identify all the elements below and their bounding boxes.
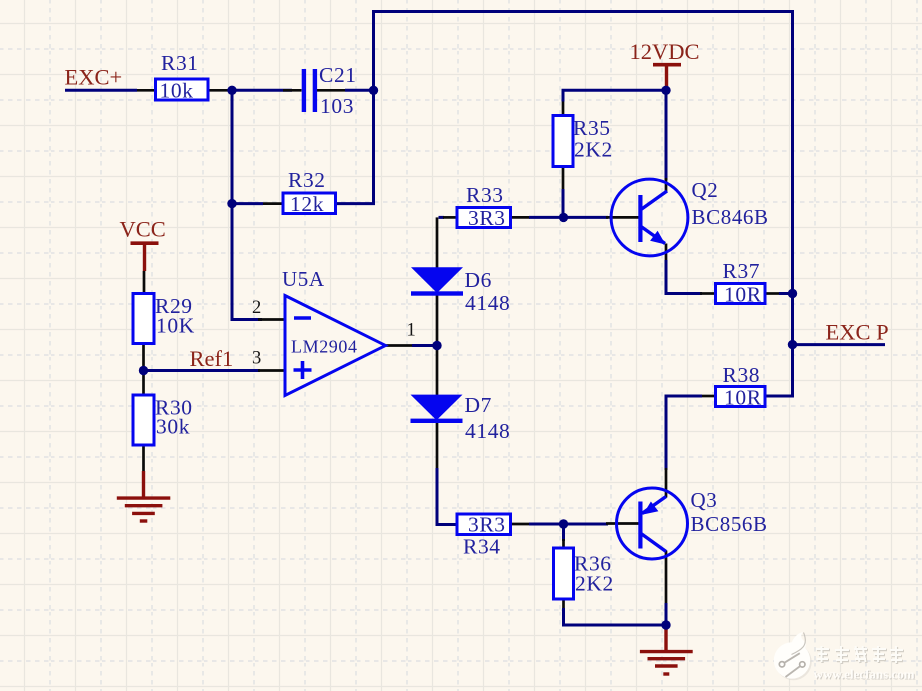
svg-text:10K: 10K	[156, 314, 195, 338]
wire R33 left corner	[439, 216, 445, 219]
pin Q3 emitter	[665, 468, 668, 498]
pin R32 left	[263, 202, 283, 205]
wire Ref1 to pin 3	[144, 369, 261, 372]
svg-text:10R: 10R	[724, 283, 762, 307]
wire diode chain mid	[436, 295, 439, 396]
svg-text:10k: 10k	[160, 79, 194, 103]
wire C21 node down to R32	[336, 90, 374, 203]
svg-text:Q3: Q3	[691, 488, 718, 512]
svg-text:R38: R38	[723, 363, 761, 387]
svg-text:4148: 4148	[465, 419, 510, 443]
wire right rail down to EXC P and R38	[765, 10, 793, 396]
pin R34 right	[511, 523, 531, 526]
ground left bars	[117, 498, 171, 521]
junction node 12VDC	[661, 86, 670, 95]
svg-text:R32: R32	[288, 168, 326, 192]
svg-text:30k: 30k	[156, 415, 190, 439]
pin R31 left	[137, 89, 156, 92]
resistor R36	[554, 548, 614, 599]
junction node Q2 base	[559, 213, 568, 222]
svg-text:4148: 4148	[465, 291, 510, 315]
pin R37 right	[765, 292, 780, 295]
svg-text:VCC: VCC	[120, 217, 166, 242]
junction node op-amp output	[432, 341, 441, 350]
svg-text:EXC+: EXC+	[65, 65, 123, 90]
pin R33 left	[443, 216, 457, 219]
svg-text:C21: C21	[319, 63, 357, 87]
svg-text:R37: R37	[723, 259, 761, 283]
resistor R33	[457, 183, 511, 230]
wire Q2 emitter to R37	[666, 260, 702, 294]
svg-text:103: 103	[320, 94, 354, 118]
junction node Q3 base	[559, 519, 568, 528]
pin op-amp 1 output	[386, 344, 413, 347]
svg-text:D7: D7	[465, 393, 492, 417]
svg-text:2K2: 2K2	[575, 572, 614, 596]
wire output to diode node	[412, 344, 437, 347]
pin C21 right	[317, 89, 345, 92]
pin Q2 emitter	[665, 244, 668, 263]
wire R35 top to 12VDC node	[563, 90, 666, 101]
wire EXC+ input	[65, 89, 137, 92]
wire Q3 collector to ground node	[665, 603, 668, 625]
pin Q3 collector	[665, 551, 668, 606]
junction node Ref1	[139, 366, 148, 375]
ground right stem	[664, 628, 667, 651]
svg-text:Ref1: Ref1	[190, 346, 234, 371]
wire diode chain vertical top	[436, 217, 439, 268]
pin R31 right	[208, 89, 232, 92]
wire node to R32 left	[232, 202, 263, 205]
wire 12VDC node to Q2 collector	[665, 90, 668, 180]
svg-text:LM2904: LM2904	[291, 337, 358, 357]
resistor R31	[156, 51, 209, 103]
svg-text:R34: R34	[463, 535, 501, 559]
junction node R32 tap	[227, 199, 236, 208]
pin Q3 base	[606, 522, 639, 525]
transistor Q2	[611, 178, 769, 256]
pin R29 top	[143, 271, 146, 294]
wire base node to R36 top	[562, 524, 565, 541]
pin Q2 base	[606, 216, 639, 219]
diode D6	[411, 267, 510, 315]
pin op-amp 3	[258, 369, 285, 372]
wire top feedback horizontal	[374, 10, 793, 13]
resistor R38	[716, 363, 766, 410]
svg-text:D6: D6	[465, 268, 492, 292]
wire R36 bottom to ground node	[564, 608, 667, 625]
resistor R30	[133, 395, 193, 445]
pin R35 top	[562, 100, 565, 116]
wire R35 bottom to base node	[562, 167, 565, 191]
junction node EXC P	[788, 340, 797, 349]
wire feedback left drop to C21 node	[372, 10, 375, 90]
svg-text:Q2: Q2	[692, 178, 719, 202]
svg-text:www.elecfans.com: www.elecfans.com	[814, 667, 915, 682]
svg-text:12VDC: 12VDC	[630, 39, 700, 64]
wire R33 to Q2 base	[529, 216, 608, 219]
svg-text:10R: 10R	[724, 386, 762, 410]
capacitor C21	[302, 63, 357, 118]
junction node Q3 collector ground	[661, 620, 670, 629]
resistor R37	[716, 259, 766, 307]
svg-text:3R3: 3R3	[468, 513, 506, 537]
resistor R32	[283, 168, 336, 216]
pin Q2 collector	[665, 178, 668, 193]
watermark elecfans logo	[774, 632, 916, 683]
wire R37 to rail	[779, 292, 793, 295]
wire R29 bottom to R30 top	[142, 344, 145, 396]
svg-text:R31: R31	[161, 51, 199, 75]
resistor R34	[457, 513, 511, 559]
wire diode chain bottom	[436, 421, 439, 470]
power 12VDC bar	[653, 65, 681, 90]
svg-text:12k: 12k	[290, 192, 324, 216]
svg-text:2K2: 2K2	[574, 138, 613, 162]
pin R33 right	[511, 216, 531, 219]
wire to R34	[437, 468, 458, 525]
wire C21 right to node	[345, 89, 374, 92]
svg-text:3: 3	[252, 349, 261, 369]
pin C21 left	[283, 89, 302, 92]
svg-text:3R3: 3R3	[468, 206, 506, 230]
wire EXC P	[793, 343, 886, 346]
wire R31 out to C21	[230, 89, 292, 92]
pin R30 bottom	[142, 445, 145, 472]
wire R38 left down to Q3 emitter	[666, 396, 702, 470]
power VCC bar	[131, 243, 159, 271]
svg-text:U5A: U5A	[282, 267, 325, 291]
wire R34 to Q3 base	[529, 523, 608, 526]
op-amp U5A	[282, 267, 386, 396]
diode D7	[411, 393, 511, 443]
pin R36 bottom	[562, 599, 565, 610]
ground left stem	[142, 471, 145, 497]
svg-text:2: 2	[252, 298, 261, 318]
pin R36 top	[562, 539, 565, 548]
pin R37 left	[700, 292, 716, 295]
svg-text:BC846B: BC846B	[692, 205, 769, 229]
junction node C21-feedback	[369, 86, 378, 95]
ground right bars	[640, 652, 693, 674]
svg-text:EXC P: EXC P	[826, 320, 889, 345]
pin op-amp 2	[258, 318, 285, 321]
pin R38 left	[700, 395, 716, 398]
transistor Q3	[617, 488, 768, 559]
svg-text:R35: R35	[573, 116, 611, 140]
wire inverting input vertical	[232, 89, 262, 320]
svg-text:BC856B: BC856B	[691, 512, 768, 536]
svg-text:R33: R33	[466, 183, 504, 207]
svg-text:1: 1	[407, 321, 416, 341]
junction node R31-C21	[227, 86, 236, 95]
junction node R37 rail	[788, 289, 797, 298]
resistor R35	[553, 116, 613, 167]
resistor R29	[133, 294, 195, 344]
wire R35 node vertical	[562, 189, 565, 217]
